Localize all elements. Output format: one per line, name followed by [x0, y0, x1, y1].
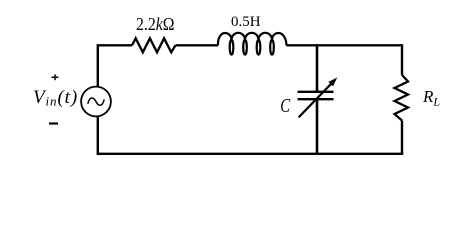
svg-text:0.5H: 0.5H — [231, 14, 261, 30]
svg-text:RL: RL — [422, 87, 440, 108]
inductor L1 loop 1 — [230, 40, 234, 55]
wire between resistor and inductor — [176, 44, 219, 46]
label plus sign — [52, 74, 59, 80]
capacitor C bottom plate — [298, 98, 334, 100]
wire capacitor branch upper — [316, 44, 319, 92]
resistor RL zigzag — [395, 75, 409, 121]
wire left branch lower — [97, 116, 99, 153]
label minus sign — [49, 122, 58, 124]
resistor R1 2.2k zigzag — [132, 38, 176, 52]
svg-text:Vin(t): Vin(t) — [33, 87, 78, 109]
wire right branch lower — [401, 121, 403, 154]
svg-text:C: C — [280, 94, 290, 117]
inductor L1 loop 2 — [243, 40, 247, 55]
capacitor arrow head — [328, 77, 337, 86]
bottom wire — [97, 153, 404, 155]
sine symbol inside source — [88, 98, 104, 105]
voltage source U1 (AC source circle) — [81, 87, 111, 117]
wire top-left (left branch upper + top wire to resistor) — [98, 45, 132, 86]
inductor L1 loop 3 — [257, 40, 261, 55]
capacitor arrow (variable) — [299, 83, 332, 117]
svg-text:2.2kΩ: 2.2kΩ — [136, 14, 175, 34]
wire capacitor branch lower — [316, 99, 319, 155]
wire inductor to top-right corner — [287, 44, 403, 46]
inductor L1 loop 4 — [270, 40, 274, 55]
wire right branch upper — [401, 44, 403, 75]
inductor L1 coil humps — [218, 33, 287, 46]
capacitor C top plate — [298, 91, 334, 93]
